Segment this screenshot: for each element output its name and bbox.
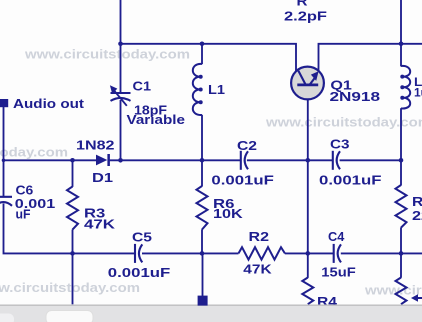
wire R6 bottom lead	[201, 229, 203, 253]
capacitor C6 left edge	[0, 197, 12, 206]
capacitor C3	[333, 151, 340, 170]
wire C1 column bottom	[120, 100, 122, 160]
node top rail / L1 column	[200, 42, 205, 47]
svg-text:C5: C5	[132, 229, 152, 244]
wire bottom rail segment C4 to right edge	[341, 252, 422, 254]
svg-text:0.001uF: 0.001uF	[319, 173, 382, 188]
terminal square audio out	[0, 99, 8, 107]
svg-text:1N82: 1N82	[76, 138, 115, 153]
resistor R3	[67, 187, 78, 230]
svg-text:2N918: 2N918	[330, 89, 381, 104]
svg-text:C1: C1	[133, 79, 152, 94]
wire Q1 base column down to rails	[307, 85, 309, 253]
wire C1 column top	[120, 0, 122, 93]
wire R3 bottom lead	[72, 230, 74, 254]
capacitor C2	[241, 151, 248, 170]
wire R6 column to terminal square	[202, 253, 204, 296]
wire R6 top lead	[201, 160, 203, 186]
wire bottom rail segment R2 to C4	[285, 252, 334, 254]
svg-text:15uF: 15uF	[321, 265, 355, 280]
svg-text:C2: C2	[237, 138, 257, 153]
wire L1 to mid rail	[201, 115, 203, 161]
svg-text:47K: 47K	[243, 262, 272, 277]
arrow pointing left at bottom right edge	[416, 297, 422, 299]
svg-text:uF: uF	[16, 206, 31, 221]
wire right column top	[400, 0, 402, 66]
transistor Q1	[291, 67, 324, 100]
svg-text:Audio out: Audio out	[13, 96, 85, 111]
node mid rail / Q1 column	[306, 158, 311, 163]
svg-text:C3: C3	[330, 137, 350, 152]
wire mid rail segment 3	[247, 159, 333, 161]
capacitor C4	[334, 244, 341, 263]
svg-text:1u: 1u	[414, 86, 422, 100]
resistor R4 below bottom rail	[302, 278, 313, 305]
svg-text:www.circuitstoday.com: www.circuitstoday.com	[364, 284, 422, 298]
svg-text:2.2pF: 2.2pF	[284, 9, 327, 24]
resistor R2	[239, 247, 285, 259]
variable capacitor C1	[111, 93, 131, 101]
inductor L1	[193, 64, 202, 115]
svg-text:R5: R5	[412, 194, 422, 209]
node mid rail / right column	[399, 158, 404, 163]
node top rail / C1 column	[118, 42, 123, 47]
wire R4 top lead	[307, 253, 309, 278]
node bottom rail / R3	[70, 251, 75, 256]
wire mid rail segment 4	[340, 159, 401, 161]
wire bottom rail segment C5 to R2	[142, 252, 239, 254]
node top rail / right column	[399, 42, 404, 47]
node bottom rail / right column	[399, 251, 404, 256]
svg-text:47K: 47K	[84, 216, 116, 231]
resistor R5 right column	[396, 185, 407, 228]
wire R3 top lead	[72, 160, 74, 187]
svg-text:www.circuitstoday.com: www.circuitstoday.com	[24, 48, 190, 62]
svg-text:0.001uF: 0.001uF	[108, 265, 171, 280]
wire L1 column top lead	[201, 44, 203, 64]
svg-text:22: 22	[412, 208, 422, 223]
node bottom rail / R6	[200, 251, 205, 256]
wire right column between R5 and bottom rail	[400, 228, 402, 254]
node bottom rail / Q1 column	[306, 251, 311, 256]
node mid rail / R3	[70, 158, 75, 163]
wire mid rail segment 1	[4, 159, 97, 161]
resistor fragment right bottom edge	[396, 278, 407, 305]
inductor L2 right edge	[401, 66, 410, 109]
resistor R6	[197, 186, 208, 230]
node mid rail / left column	[2, 159, 6, 163]
svg-text:10K: 10K	[213, 206, 243, 221]
svg-text:C4: C4	[328, 229, 345, 244]
wire top rail left segment with corner down to Q1 base	[121, 44, 297, 73]
svg-text:D1: D1	[92, 170, 113, 185]
svg-text:www.circuitstoday.com: www.circuitstoday.com	[0, 146, 68, 160]
svg-text:0.001uF: 0.001uF	[211, 173, 274, 188]
bottom ui strip	[0, 305, 422, 322]
node mid rail / L1-R6 column	[200, 158, 205, 163]
capacitor C5	[135, 244, 142, 263]
wire right column between L2 and R5	[400, 108, 402, 185]
wire left column from audio terminal to C6	[3, 107, 5, 197]
svg-text:R2: R2	[249, 229, 270, 244]
node mid rail / C1 column	[118, 158, 123, 163]
svg-text:www.circuitstoday.com: www.circuitstoday.com	[0, 281, 140, 295]
wire right column below bottom rail	[400, 253, 402, 277]
wire R3 column below bottom rail	[72, 253, 74, 304]
svg-text:R: R	[297, 0, 309, 9]
svg-text:C6: C6	[16, 182, 34, 197]
terminal square bottom of R6 column	[198, 296, 208, 306]
svg-text:www.circuitstoday.com: www.circuitstoday.com	[265, 116, 422, 130]
wire Q1 emitter stub up and top rail right segment	[319, 44, 422, 71]
wire left column from C6 to bottom rail corner	[4, 204, 136, 254]
svg-text:Variable: Variable	[127, 112, 186, 127]
svg-text:L1: L1	[208, 82, 225, 97]
diode D1	[96, 154, 110, 166]
wire mid rail segment 2	[110, 159, 241, 161]
